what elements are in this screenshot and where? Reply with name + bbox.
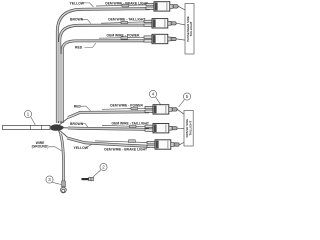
OEM wire T1 (brake) [96, 4, 146, 7]
wire red bottom (tube) [58, 112, 149, 126]
label YELLOW top [70, 1, 94, 7]
wire T3 output [176, 39, 185, 40]
svg-text:OEM WIRE - BRAKE LIGHT: OEM WIRE - BRAKE LIGHT [105, 1, 148, 5]
OEM wire B3 (brake) [95, 140, 147, 143]
wire T1 output [178, 6, 185, 10]
wire harness main tube W0 [3, 125, 51, 129]
wire brown bottom (tube) [59, 128, 149, 130]
label YELLOW bottom [74, 144, 93, 150]
screw fastener [82, 177, 94, 181]
wire B3 output [179, 142, 184, 145]
wire red top (tube) [62, 41, 144, 123]
T-tap connector B1 [145, 105, 177, 114]
wire B2 output [177, 127, 184, 129]
wire B1 output [177, 109, 184, 114]
svg-text:TAILLIGHT: TAILLIGHT [189, 21, 193, 36]
wire brown top (tube) [60, 25, 144, 123]
svg-text:TAILLIGHT: TAILLIGHT [188, 121, 192, 136]
label RED top [75, 43, 96, 50]
wire red top highlight [62, 41, 144, 123]
T-tap connector T3 [144, 34, 176, 43]
callout 5 [179, 93, 191, 107]
callout 3 [46, 176, 61, 185]
svg-text:OEM WIRE - BRAKE LIGHT: OEM WIRE - BRAKE LIGHT [104, 147, 147, 151]
callout 2 [93, 163, 107, 177]
label RED bottom [74, 104, 91, 110]
svg-text:OEM WIRE - POWER: OEM WIRE - POWER [110, 103, 143, 107]
wire yellow top highlight [57, 9, 150, 123]
T-tap connector B2 [145, 124, 177, 133]
callout 1 [24, 110, 35, 125]
OEM wire T3 (power) [99, 37, 144, 40]
svg-text:YELLOW: YELLOW [74, 146, 89, 150]
svg-text:YELLOW: YELLOW [70, 1, 85, 5]
label BROWN top [70, 18, 91, 24]
wire yellow bottom (tube) [58, 129, 148, 146]
T-tap connector T2 [144, 19, 176, 28]
ring terminal [61, 181, 67, 193]
svg-text:RED: RED [75, 46, 83, 50]
OEM wire B2 (taillight) [102, 125, 149, 128]
driver side taillight box [184, 111, 193, 147]
label WIRE (GROUND) [32, 141, 62, 151]
svg-text:OEM WIRE - POWER: OEM WIRE - POWER [107, 34, 140, 38]
svg-text:BROWN: BROWN [70, 122, 84, 126]
svg-text:OEM WIRE - TAILLIGHT: OEM WIRE - TAILLIGHT [112, 122, 149, 126]
label BROWN bottom [70, 122, 88, 127]
callout 4 [149, 90, 160, 104]
OEM wire T2 (taillight) [101, 21, 144, 24]
passenger side taillight box [185, 4, 194, 55]
wire T2 output [176, 23, 185, 25]
svg-text:RED: RED [74, 104, 82, 108]
OEM wire B1 (power) [102, 107, 151, 110]
svg-text:(GROUND): (GROUND) [32, 145, 49, 149]
svg-text:OEM WIRE - TAILLIGHT: OEM WIRE - TAILLIGHT [108, 18, 145, 22]
wire bundle shading [59, 42, 62, 121]
junction tape wrap [51, 124, 64, 130]
T-tap connector B3 [147, 140, 179, 149]
T-tap connector T1 [146, 2, 178, 11]
wire brown top highlight [60, 25, 144, 123]
wire ground (tube) [58, 130, 64, 182]
wire yellow top (tube) [57, 9, 150, 123]
